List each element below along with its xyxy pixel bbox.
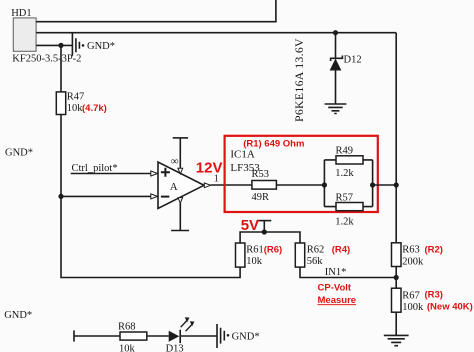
- resistor R63: [392, 243, 425, 267]
- svg-text:GND*: GND*: [87, 41, 115, 52]
- node D12 tap: [333, 30, 338, 35]
- 12V rail T-bar (V+): [173, 138, 188, 169]
- resistor R53: [252, 169, 277, 203]
- wire R62 to IN1 node: [300, 267, 396, 277]
- wire terminal to R68: [74, 335, 120, 337]
- value annotation (4.7k): [82, 103, 107, 114]
- svg-text:Measure: Measure: [318, 295, 357, 306]
- power 5V T-bar: [257, 221, 271, 232]
- node right of parallel pair: [370, 182, 375, 187]
- svg-text:10k: 10k: [119, 343, 136, 352]
- resistor R47: [56, 92, 84, 115]
- annotation (R2): [425, 244, 443, 255]
- svg-text:IN1*: IN1*: [325, 267, 347, 278]
- svg-text:R53: R53: [252, 169, 270, 180]
- svg-text:49R: 49R: [252, 192, 270, 203]
- label P6KE16A 13.6V: [292, 38, 306, 122]
- wire op-amp output to R53: [211, 184, 252, 186]
- annotation Measure (underlined): [318, 295, 357, 306]
- net label GND* (bottom-left): [4, 310, 32, 321]
- label D13: [166, 344, 184, 352]
- LED D13: [169, 330, 181, 343]
- annotation (R4): [332, 244, 350, 255]
- parallel pair frame wires: [324, 160, 372, 207]
- annotation (R6): [264, 244, 282, 255]
- node left of parallel pair: [322, 182, 327, 187]
- op-amp letter A: [170, 181, 178, 193]
- op-amp minus sign: [161, 196, 169, 198]
- resistor R49: [335, 146, 363, 180]
- svg-text:10k: 10k: [67, 103, 84, 114]
- wire R53 to parallel pair: [276, 184, 324, 186]
- V- rail T-bar: [171, 203, 189, 231]
- annotation (R1) 649 Ohm: [243, 138, 304, 149]
- node 5V junction: [262, 229, 267, 234]
- ground (earth) below D12: [325, 104, 347, 114]
- ground (earth) below R67: [384, 335, 409, 345]
- label GND* (bottom): [232, 331, 260, 342]
- label GND* (connector): [87, 41, 115, 52]
- net label GND* (left): [5, 147, 33, 158]
- wire non-inverting input: [71, 173, 151, 175]
- wire pin1 (top, exits up at x=276): [36, 0, 276, 22]
- svg-text:1.2k: 1.2k: [335, 168, 354, 179]
- label 5V: [241, 217, 259, 234]
- svg-text:12V: 12V: [196, 159, 223, 176]
- wire left rail down: [61, 115, 240, 278]
- wire down to R47: [60, 45, 62, 92]
- pin number 1: [214, 173, 219, 184]
- svg-text:GND*: GND*: [5, 147, 33, 158]
- svg-text:R49: R49: [336, 146, 354, 157]
- svg-text:R47: R47: [67, 92, 85, 103]
- annotation red box (R1): [225, 136, 378, 212]
- svg-text:Ctrl_pilot*: Ctrl_pilot*: [72, 163, 118, 174]
- svg-text:A: A: [170, 181, 178, 193]
- svg-text:R62: R62: [307, 245, 325, 256]
- wire 5V rail to R61 and R62: [240, 232, 300, 243]
- wire R63 to R67: [395, 267, 397, 289]
- annotation (New 40K): [427, 302, 473, 313]
- node IN1 divider: [394, 275, 399, 280]
- terminal tick bottom wire: [73, 330, 75, 341]
- wire pin2 (long horizontal to right rail): [36, 32, 396, 34]
- svg-text:200k: 200k: [402, 256, 424, 267]
- label KF250-3.5-3P-2: [12, 54, 81, 65]
- net label Ctrl_pilot*: [72, 163, 118, 174]
- svg-text:GND*: GND*: [4, 310, 32, 321]
- svg-text:(R4): (R4): [332, 244, 350, 255]
- wire to D12: [335, 33, 337, 59]
- svg-text:(R3): (R3): [425, 290, 443, 301]
- svg-text:1.2k: 1.2k: [335, 217, 354, 228]
- label HD1: [11, 8, 31, 19]
- wire R67 to ground: [395, 312, 397, 335]
- LED arrows: [181, 317, 195, 331]
- resistor R62: [295, 243, 324, 267]
- connector HD1 body: [13, 18, 36, 51]
- wire R68 to D13: [147, 335, 169, 337]
- wire right rail vertical: [395, 33, 397, 243]
- pin arrow V-: [178, 198, 183, 204]
- pin arrow non-inverting input: [151, 171, 158, 176]
- ground GND* (bottom): [217, 324, 229, 348]
- ground GND* at connector: [72, 33, 84, 56]
- svg-text:(R2): (R2): [425, 244, 443, 255]
- svg-text:∞: ∞: [171, 156, 179, 168]
- resistor R68: [118, 321, 147, 352]
- svg-text:P6KE16A 13.6V: P6KE16A 13.6V: [292, 38, 306, 122]
- svg-text:56k: 56k: [307, 256, 324, 267]
- resistor R61: [236, 243, 264, 267]
- svg-text:R68: R68: [118, 321, 136, 332]
- wire D13 to ground: [181, 335, 217, 337]
- svg-text:GND*: GND*: [232, 331, 260, 342]
- svg-text:(R6): (R6): [264, 244, 282, 255]
- pin arrow V+: [178, 168, 183, 174]
- pin arrow output: [204, 183, 211, 188]
- svg-text:R63: R63: [402, 245, 420, 256]
- wire D12 to ground: [335, 70, 337, 104]
- op-amp infinity symbol: [171, 156, 179, 168]
- svg-text:IC1A: IC1A: [230, 149, 255, 161]
- svg-text:100k: 100k: [402, 302, 424, 313]
- svg-text:(4.7k): (4.7k): [82, 103, 107, 114]
- node junction pin3 / R47: [58, 43, 63, 48]
- annotation CP-Volt: [318, 283, 352, 294]
- svg-text:(New 40K): (New 40K): [427, 302, 473, 313]
- net label IN1*: [325, 267, 347, 278]
- node junction inverting input: [58, 194, 63, 199]
- label IC1A: [230, 149, 255, 161]
- diode D12 (TVS zener): [330, 56, 343, 71]
- svg-text:D12: D12: [344, 55, 362, 66]
- svg-text:R67: R67: [402, 290, 420, 301]
- annotation (R3): [425, 290, 443, 301]
- wire pin3 (to GND symbol): [36, 44, 72, 46]
- resistor R67: [392, 288, 425, 313]
- resistor R57: [335, 192, 363, 227]
- op-amp IC1A triangle: [158, 162, 204, 209]
- svg-text:R57: R57: [336, 192, 354, 203]
- wire parallel pair to right rail: [373, 184, 397, 186]
- wire inverting input: [61, 195, 151, 197]
- node on right rail: [394, 182, 399, 187]
- svg-text:R61: R61: [246, 245, 264, 256]
- pin arrow inverting input: [151, 194, 158, 199]
- label 12V: [196, 159, 223, 176]
- label LF353: [230, 162, 260, 174]
- svg-text:10k: 10k: [246, 256, 263, 267]
- svg-text:CP-Volt: CP-Volt: [318, 283, 352, 294]
- op-amp plus sign: [161, 168, 170, 177]
- svg-text:KF250-3.5-3P-2: KF250-3.5-3P-2: [12, 54, 81, 65]
- label D12: [344, 55, 362, 66]
- svg-text:D13: D13: [166, 344, 184, 352]
- svg-text:HD1: HD1: [11, 8, 31, 19]
